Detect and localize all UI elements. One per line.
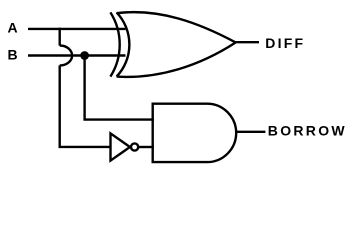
svg-text:DIFF: DIFF	[265, 35, 305, 51]
svg-text:B: B	[8, 47, 18, 63]
svg-text:BORROW: BORROW	[268, 122, 347, 138]
wire AND output	[236, 131, 265, 133]
wire B horizontal	[28, 54, 126, 56]
NOT U3 triangle	[111, 133, 131, 160]
NOT U3 bubble	[131, 143, 138, 150]
wire A horizontal	[28, 28, 126, 30]
AND U2 body	[153, 104, 236, 162]
XOR U1 outer back arc	[110, 12, 119, 76]
wire NOT output to AND bottom input	[138, 146, 154, 148]
junction dot on B	[80, 51, 89, 60]
svg-text:A: A	[8, 20, 18, 36]
wire A branch vertical lower + to NOT input	[60, 65, 111, 146]
wire hop over B	[60, 46, 72, 66]
wire A branch vertical upper	[59, 28, 61, 46]
XOR U1 body	[117, 12, 236, 77]
wire B branch vertical + to AND top input	[85, 56, 154, 120]
wire XOR output	[235, 41, 259, 43]
